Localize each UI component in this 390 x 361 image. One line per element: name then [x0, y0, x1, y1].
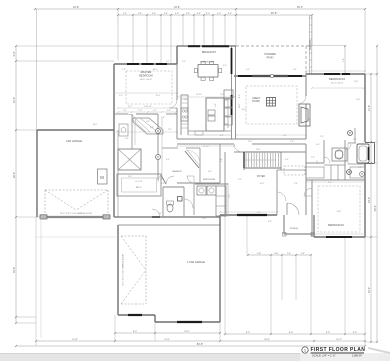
wall stairs north — [234, 151, 306, 153]
wall bath south — [306, 179, 365, 181]
wall great room east — [305, 74, 307, 96]
ceiling dashed great room — [246, 86, 297, 124]
svg-text:SCALE: 1/4" = 1'-0": SCALE: 1/4" = 1'-0" — [312, 354, 335, 358]
svg-text:2'-6": 2'-6" — [301, 253, 305, 255]
kitchen counter hall side — [188, 130, 231, 132]
exterior wall porch east — [313, 215, 315, 237]
svg-text:6'-8": 6'-8" — [215, 103, 217, 107]
front door arc — [287, 203, 299, 215]
svg-text:8'-0": 8'-0" — [182, 61, 186, 63]
left garage south wall — [41, 216, 110, 218]
svg-text:13'-10": 13'-10" — [196, 94, 202, 96]
svg-text:17'-6": 17'-6" — [248, 141, 253, 143]
kitchen appliance wall boxes — [225, 99, 233, 107]
right dimension line inner — [370, 74, 372, 342]
right dimension line outer — [376, 46, 378, 342]
kitchen sink — [195, 131, 203, 135]
bottom dimension line middle — [36, 340, 365, 342]
svg-text:29'-0": 29'-0" — [13, 172, 16, 178]
page bottom edge band — [0, 353, 390, 361]
page corner shadow — [368, 347, 390, 354]
svg-text:CAR GARAGE: CAR GARAGE — [66, 140, 82, 143]
svg-text:13 R: 13 R — [256, 149, 261, 151]
bath tub — [357, 144, 369, 163]
svg-text:34'-8": 34'-8" — [174, 6, 180, 9]
svg-text:1398 SF: 1398 SF — [352, 354, 363, 358]
svg-text:4'-8": 4'-8" — [152, 13, 156, 15]
svg-text:11'-4": 11'-4" — [356, 99, 361, 101]
rear garage south wall lower — [155, 321, 220, 323]
rear garage south wall upper — [118, 314, 155, 316]
wall bath inner east — [344, 140, 346, 180]
exterior wall bedroom2 south — [314, 236, 365, 238]
svg-text:2'-8": 2'-8" — [290, 141, 294, 143]
exterior wall great room north — [234, 75, 306, 77]
bottom extension lines — [35, 217, 37, 346]
svg-text:BEDROOM: BEDROOM — [139, 74, 152, 78]
door arc master — [169, 100, 177, 108]
door arc master bath entry — [128, 114, 136, 122]
door arc bed2 — [304, 188, 312, 196]
rear garage north wall — [118, 224, 220, 226]
exterior wall master west — [113, 64, 115, 217]
svg-text:84'-8": 84'-8" — [197, 342, 204, 346]
svg-text:5'-8": 5'-8" — [293, 69, 297, 71]
wall breakfast east — [231, 46, 233, 139]
svg-text:6'-0": 6'-0" — [246, 69, 250, 71]
wall foyer entry west — [276, 170, 278, 215]
bath wall symbol 1 — [156, 129, 161, 134]
svg-text:4'-0": 4'-0" — [239, 94, 241, 98]
vanity bath right — [306, 167, 324, 178]
kitchen cabinet rungs — [181, 98, 188, 100]
wic outer walls — [117, 174, 161, 196]
tub bump-out east — [365, 142, 375, 144]
rear garage east wall — [219, 215, 221, 322]
svg-text:15'-8": 15'-8" — [72, 339, 78, 341]
svg-text:6'-4": 6'-4" — [166, 159, 170, 161]
svg-text:8'-0": 8'-0" — [128, 176, 132, 178]
svg-text:5'-0": 5'-0" — [123, 13, 127, 15]
bath toilet 2 — [347, 170, 352, 175]
svg-text:GREAT: GREAT — [252, 97, 260, 100]
svg-text:59'-4": 59'-4" — [373, 205, 377, 212]
laundry washer dryer — [197, 186, 206, 195]
wall hall north — [177, 138, 306, 140]
svg-text:6'-0": 6'-0" — [283, 135, 287, 137]
svg-text:11'-0": 11'-0" — [354, 81, 359, 83]
svg-text:4'-0": 4'-0" — [167, 110, 171, 112]
wall bath closet — [306, 162, 324, 164]
exterior wall master bedroom north — [114, 63, 177, 65]
svg-text:5'-0": 5'-0" — [309, 118, 311, 122]
svg-text:BREAKFAST: BREAKFAST — [202, 51, 217, 54]
svg-text:ROOM: ROOM — [252, 101, 259, 103]
master corner shower — [133, 118, 163, 134]
svg-text:2'-0": 2'-0" — [119, 95, 123, 97]
svg-text:16'-0" X 8'-0" O.H. GARAGE DOO: 16'-0" X 8'-0" O.H. GARAGE DOOR — [60, 212, 92, 215]
wall bed2 west — [311, 180, 313, 237]
svg-text:14'-0" x 16'-0": 14'-0" x 16'-0" — [140, 79, 153, 81]
svg-text:18'-8": 18'-8" — [264, 339, 270, 341]
hall bath door arcs — [324, 157, 330, 163]
top dimension line overall 84-8 — [35, 8, 365, 10]
ceiling dashed master bedroom — [126, 71, 172, 104]
rear garage door V pattern — [121, 235, 146, 237]
svg-text:5'-0": 5'-0" — [353, 139, 357, 141]
svg-text:12'-10": 12'-10" — [203, 146, 209, 148]
interior dimension lines — [177, 96, 234, 98]
svg-text:3'-4": 3'-4" — [221, 158, 223, 162]
svg-text:21'-0": 21'-0" — [164, 339, 170, 341]
exterior wall house south middle — [114, 216, 220, 218]
bottom dimension line overall 84-8 — [16, 345, 365, 347]
svg-text:8'-0": 8'-0" — [133, 331, 138, 333]
exterior wall east upper — [364, 74, 366, 142]
left garage north wall — [37, 129, 114, 131]
window breakfast east — [231, 48, 233, 74]
exterior wall family south — [220, 214, 277, 216]
exterior wall east lower — [364, 163, 366, 237]
svg-text:20'-0": 20'-0" — [368, 197, 371, 203]
wall laundry north — [162, 147, 178, 149]
master tub — [118, 149, 141, 170]
svg-text:5'-4": 5'-4" — [158, 213, 162, 215]
bath vanity with sink — [332, 148, 347, 161]
svg-text:3'-8": 3'-8" — [294, 183, 298, 185]
svg-text:PORCH: PORCH — [290, 228, 298, 230]
powder room walls — [162, 187, 164, 217]
left extension lines — [16, 45, 177, 47]
door arc hall closet — [166, 176, 174, 184]
svg-text:5'-0": 5'-0" — [161, 183, 165, 185]
left garage south wall caps — [40, 215, 47, 219]
svg-text:3'-8": 3'-8" — [146, 121, 150, 123]
wall foyer-bed2 divide — [305, 144, 307, 215]
svg-text:5'-4": 5'-4" — [220, 94, 224, 96]
svg-text:33'-0": 33'-0" — [13, 267, 16, 273]
window bedroom2 south — [326, 236, 352, 238]
mud room lockers — [216, 186, 226, 216]
svg-text:9'-0": 9'-0" — [202, 218, 206, 220]
column porch right — [311, 233, 315, 237]
wall foyer east — [280, 152, 282, 170]
porch dimension row — [248, 254, 311, 256]
wic door leaf — [161, 175, 166, 184]
svg-text:5'-2": 5'-2" — [166, 61, 170, 63]
svg-text:MUD ROOM: MUD ROOM — [203, 179, 215, 181]
wall laundry — [177, 182, 220, 184]
svg-text:6'-0": 6'-0" — [316, 144, 320, 146]
covered patio outline — [236, 45, 306, 47]
svg-text:3'-0": 3'-0" — [229, 194, 231, 198]
svg-text:16'-8": 16'-8" — [153, 69, 158, 71]
svg-text:14'-0": 14'-0" — [239, 103, 241, 108]
svg-text:5'-0": 5'-0" — [13, 51, 16, 56]
svg-text:4'-8": 4'-8" — [285, 159, 289, 161]
svg-text:18'-0 1/2": 18'-0 1/2" — [144, 106, 152, 108]
svg-text:14'-8": 14'-8" — [337, 211, 342, 213]
master bath wall east — [157, 114, 159, 180]
svg-text:3'-0": 3'-0" — [125, 138, 129, 140]
family west wall pair — [224, 152, 226, 217]
svg-text:2'-8": 2'-8" — [122, 69, 126, 71]
bottom dimension line right segments — [225, 333, 365, 335]
svg-text:24'-8": 24'-8" — [73, 6, 79, 9]
covered porch outline — [283, 215, 285, 234]
bath sink 2 — [360, 172, 365, 177]
bottom dimension line left segments — [115, 332, 220, 334]
exterior wall breakfast north — [177, 45, 236, 47]
svg-text:MASTER: MASTER — [141, 70, 152, 74]
top dimension line right 36-8 — [236, 14, 312, 16]
svg-text:2'-4": 2'-4" — [168, 129, 172, 131]
svg-text:3'-6": 3'-6" — [161, 117, 165, 119]
top dimension line subdivisions — [118, 14, 236, 16]
wall laundry east — [199, 148, 201, 183]
svg-text:FOYER: FOYER — [257, 176, 265, 178]
window breakfast north — [188, 45, 200, 47]
patio sliding door — [238, 75, 252, 77]
svg-text:6'-8": 6'-8" — [268, 221, 272, 223]
left garage door V pattern — [45, 189, 108, 191]
svg-text:3'-6": 3'-6" — [123, 110, 127, 112]
window family south — [237, 214, 267, 216]
ceiling dashed bedroom2 — [318, 186, 360, 232]
title block first floor plan — [302, 347, 308, 353]
niche family hall — [220, 138, 234, 140]
svg-text:4'-0": 4'-0" — [175, 13, 179, 15]
svg-text:26'-8": 26'-8" — [271, 11, 278, 15]
driveway edge — [40, 217, 42, 338]
master bath wall mid — [131, 114, 133, 149]
svg-text:4'-8": 4'-8" — [138, 13, 142, 15]
svg-text:4'-0": 4'-0" — [128, 106, 132, 108]
svg-text:10'-4": 10'-4" — [260, 183, 265, 185]
patio door marker — [270, 74, 273, 77]
exterior wall breakfast step — [176, 46, 178, 64]
patio right dim — [306, 45, 345, 47]
left garage west wall — [36, 130, 38, 217]
bath toilet 1 — [348, 131, 353, 136]
svg-text:22'-0": 22'-0" — [13, 97, 16, 103]
laundry door leaf diagonal — [185, 151, 199, 168]
svg-text:4'-2": 4'-2" — [153, 110, 157, 112]
great room chandelier — [267, 98, 276, 107]
svg-text:7'-4": 7'-4" — [343, 58, 345, 62]
fireplace — [299, 104, 310, 126]
door arc mud — [234, 144, 242, 152]
door arc bed4 — [298, 96, 306, 104]
svg-text:BEDROOM #4: BEDROOM #4 — [329, 78, 345, 81]
svg-text:2'-8": 2'-8" — [358, 167, 362, 169]
right extension lines — [365, 73, 377, 75]
svg-text:2'-8": 2'-8" — [311, 157, 315, 159]
garage door 9x8 — [128, 314, 142, 316]
svg-text:16'-0" X 8'-0" O.H. GARAGE DOO: 16'-0" X 8'-0" O.H. GARAGE DOOR — [122, 254, 125, 286]
svg-text:LAUNDRY: LAUNDRY — [172, 170, 183, 173]
left dimension line — [15, 46, 17, 323]
wall bath inner west — [323, 140, 325, 163]
wall mud east — [219, 144, 221, 183]
svg-text:8'-0": 8'-0" — [246, 332, 251, 334]
svg-text:50'-0": 50'-0" — [297, 6, 303, 9]
svg-text:4'-0": 4'-0" — [217, 13, 221, 15]
bath walls right cluster — [354, 128, 356, 143]
rear garage west wall — [117, 225, 119, 315]
powder sink — [178, 197, 183, 202]
kitchen island — [206, 98, 224, 131]
svg-text:14'-0": 14'-0" — [368, 105, 371, 111]
downspout ladder symbol — [309, 15, 311, 74]
svg-text:4'-0": 4'-0" — [220, 135, 224, 137]
svg-text:2'-6": 2'-6" — [320, 136, 324, 138]
svg-text:M: M — [100, 175, 104, 180]
wall foyer entry north — [277, 169, 306, 171]
vanity bath right 2 — [350, 167, 365, 178]
svg-text:3'-0": 3'-0" — [206, 13, 210, 15]
bath wall symbol 2 — [156, 155, 161, 160]
svg-text:W.I.C.: W.I.C. — [136, 187, 142, 189]
svg-text:4'-0": 4'-0" — [223, 65, 227, 67]
svg-text:3'-4": 3'-4" — [164, 13, 168, 15]
svg-text:2'-8": 2'-8" — [184, 99, 188, 101]
svg-text:10'-0": 10'-0" — [242, 109, 247, 111]
wall foyer west — [243, 152, 245, 170]
svg-text:9'-8": 9'-8" — [150, 127, 154, 129]
svg-text:12'-4": 12'-4" — [156, 95, 161, 97]
svg-text:3'-0": 3'-0" — [317, 160, 319, 164]
svg-text:3'-4": 3'-4" — [353, 332, 358, 334]
svg-text:11'-6 1/2": 11'-6 1/2" — [135, 181, 143, 183]
svg-text:BEDROOM #2: BEDROOM #2 — [328, 224, 344, 227]
window master bedroom north — [127, 63, 139, 65]
rear garage south step — [154, 315, 156, 322]
svg-text:12'-0" x 13'-0": 12'-0" x 13'-0" — [331, 83, 344, 85]
svg-text:2 CAR GARAGE: 2 CAR GARAGE — [187, 261, 205, 264]
svg-text:3'-8": 3'-8" — [228, 13, 232, 15]
exterior wall bedroom4 north — [306, 73, 365, 75]
wall master east — [176, 64, 178, 100]
door arc laundry — [187, 176, 194, 183]
extension line south midleft — [36, 236, 118, 238]
door arc garage entry — [152, 209, 160, 217]
entry door arc side — [277, 192, 286, 201]
wic shelving inner — [122, 178, 157, 192]
svg-text:3'-4": 3'-4" — [197, 13, 201, 15]
svg-text:3'-8": 3'-8" — [186, 13, 190, 15]
kitchen range — [181, 108, 188, 121]
mud room north wall — [195, 183, 228, 185]
svg-text:PATIO: PATIO — [267, 57, 274, 60]
water heater — [98, 169, 108, 184]
interior dim row master bath — [118, 107, 176, 109]
attic access dashed — [284, 166, 305, 175]
svg-text:5'-8": 5'-8" — [326, 332, 331, 334]
column porch left — [283, 233, 287, 237]
svg-text:5'-11": 5'-11" — [138, 110, 143, 112]
wall kitchen pantry west — [180, 95, 182, 135]
svg-text:1'-10": 1'-10" — [274, 253, 279, 255]
powder toilet — [167, 204, 173, 212]
svg-text:6'-8": 6'-8" — [289, 332, 294, 334]
dining table — [198, 65, 218, 78]
stairs — [245, 153, 247, 167]
svg-text:DINE ROOM: DINE ROOM — [201, 62, 214, 64]
svg-text:5'-4": 5'-4" — [328, 182, 332, 184]
svg-text:3'-0": 3'-0" — [238, 179, 242, 181]
master bath vanity — [119, 124, 128, 136]
window bedroom4 north — [324, 73, 340, 75]
svg-text:10'-4": 10'-4" — [336, 339, 342, 341]
kitchen fridge — [224, 90, 233, 98]
wall hall south — [177, 143, 234, 145]
top extension lines — [36, 9, 38, 130]
svg-text:2'-4": 2'-4" — [287, 253, 291, 255]
wall master south — [114, 113, 128, 115]
svg-text:13'-0": 13'-0" — [184, 331, 190, 333]
svg-text:6'-8": 6'-8" — [257, 212, 261, 214]
garage door rear — [177, 321, 202, 323]
svg-text:4'-6": 4'-6" — [208, 171, 212, 173]
svg-text:10'-0": 10'-0" — [93, 124, 98, 126]
powder door arc — [184, 199, 193, 208]
bedroom4 interior dim line — [312, 87, 364, 89]
svg-text:3'-10": 3'-10" — [257, 253, 262, 255]
svg-text:24'-0": 24'-0" — [368, 287, 371, 293]
